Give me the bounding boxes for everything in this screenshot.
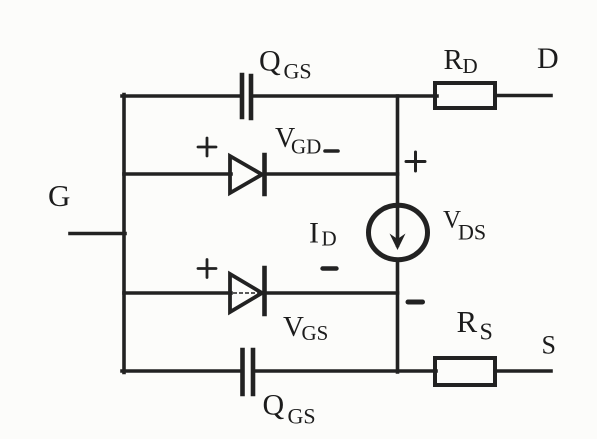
svg-text:G: G	[48, 178, 70, 213]
current source ID circle	[369, 205, 428, 259]
resistor RD box	[435, 83, 495, 108]
capacitor QGS (bottom), left plate	[240, 350, 245, 394]
resistor RS box	[435, 358, 495, 385]
wire: top rail right of capacitor to node D'	[253, 94, 437, 98]
wire: VGS branch left	[124, 291, 231, 295]
capacitor QGS (bottom), right plate	[251, 350, 256, 394]
wire: left gate bus	[122, 95, 126, 373]
wire: bottom rail left of capacitor	[122, 369, 240, 373]
svg-text:R: R	[457, 304, 478, 339]
diode VGS triangle	[230, 274, 262, 312]
svg-text:S: S	[480, 320, 493, 346]
svg-text:S: S	[542, 331, 556, 360]
wire: source lead to S	[495, 369, 551, 373]
wire: top rail left of capacitor	[122, 94, 240, 98]
svg-text:I: I	[309, 217, 319, 250]
diode VGS cathode bar	[262, 268, 267, 314]
wire: VGD branch right	[267, 172, 398, 176]
capacitor QGS (top), right plate	[249, 76, 254, 118]
svg-text:D: D	[322, 227, 337, 251]
svg-text:GD: GD	[291, 135, 321, 159]
minus sign of VGS	[323, 266, 337, 270]
svg-text:D: D	[537, 42, 559, 75]
svg-text:GS: GS	[284, 59, 312, 84]
current source arrow shaft	[396, 206, 400, 245]
plus sign of VDS	[406, 152, 425, 171]
wire: right bus upper segment	[396, 96, 400, 206]
wire: drain lead to D	[495, 94, 551, 98]
plus sign of VGD	[198, 138, 216, 156]
svg-text:Q: Q	[263, 389, 285, 422]
svg-text:R: R	[444, 44, 464, 76]
plus sign of VGS	[198, 260, 216, 278]
minus sign of VGD	[325, 149, 338, 153]
diode VGD triangle	[230, 156, 262, 193]
capacitor QGS (top), left plate	[240, 75, 245, 117]
svg-text:GS: GS	[302, 321, 329, 345]
svg-text:GS: GS	[288, 404, 316, 429]
wire: VGD branch left	[124, 172, 231, 176]
svg-text:Q: Q	[259, 45, 281, 78]
minus sign of VDS	[408, 300, 423, 305]
svg-text:DS: DS	[458, 220, 486, 245]
diode VGS dotted interior wire	[234, 292, 259, 294]
wire: VGS branch right	[267, 291, 398, 295]
wire: right bus lower segment	[396, 261, 400, 372]
diode VGD cathode bar	[262, 155, 267, 194]
svg-text:D: D	[463, 54, 478, 78]
wire: gate lead G	[70, 232, 125, 236]
wire: bottom rail right of capacitor to node S'	[255, 369, 436, 373]
current source arrowhead	[390, 234, 406, 251]
